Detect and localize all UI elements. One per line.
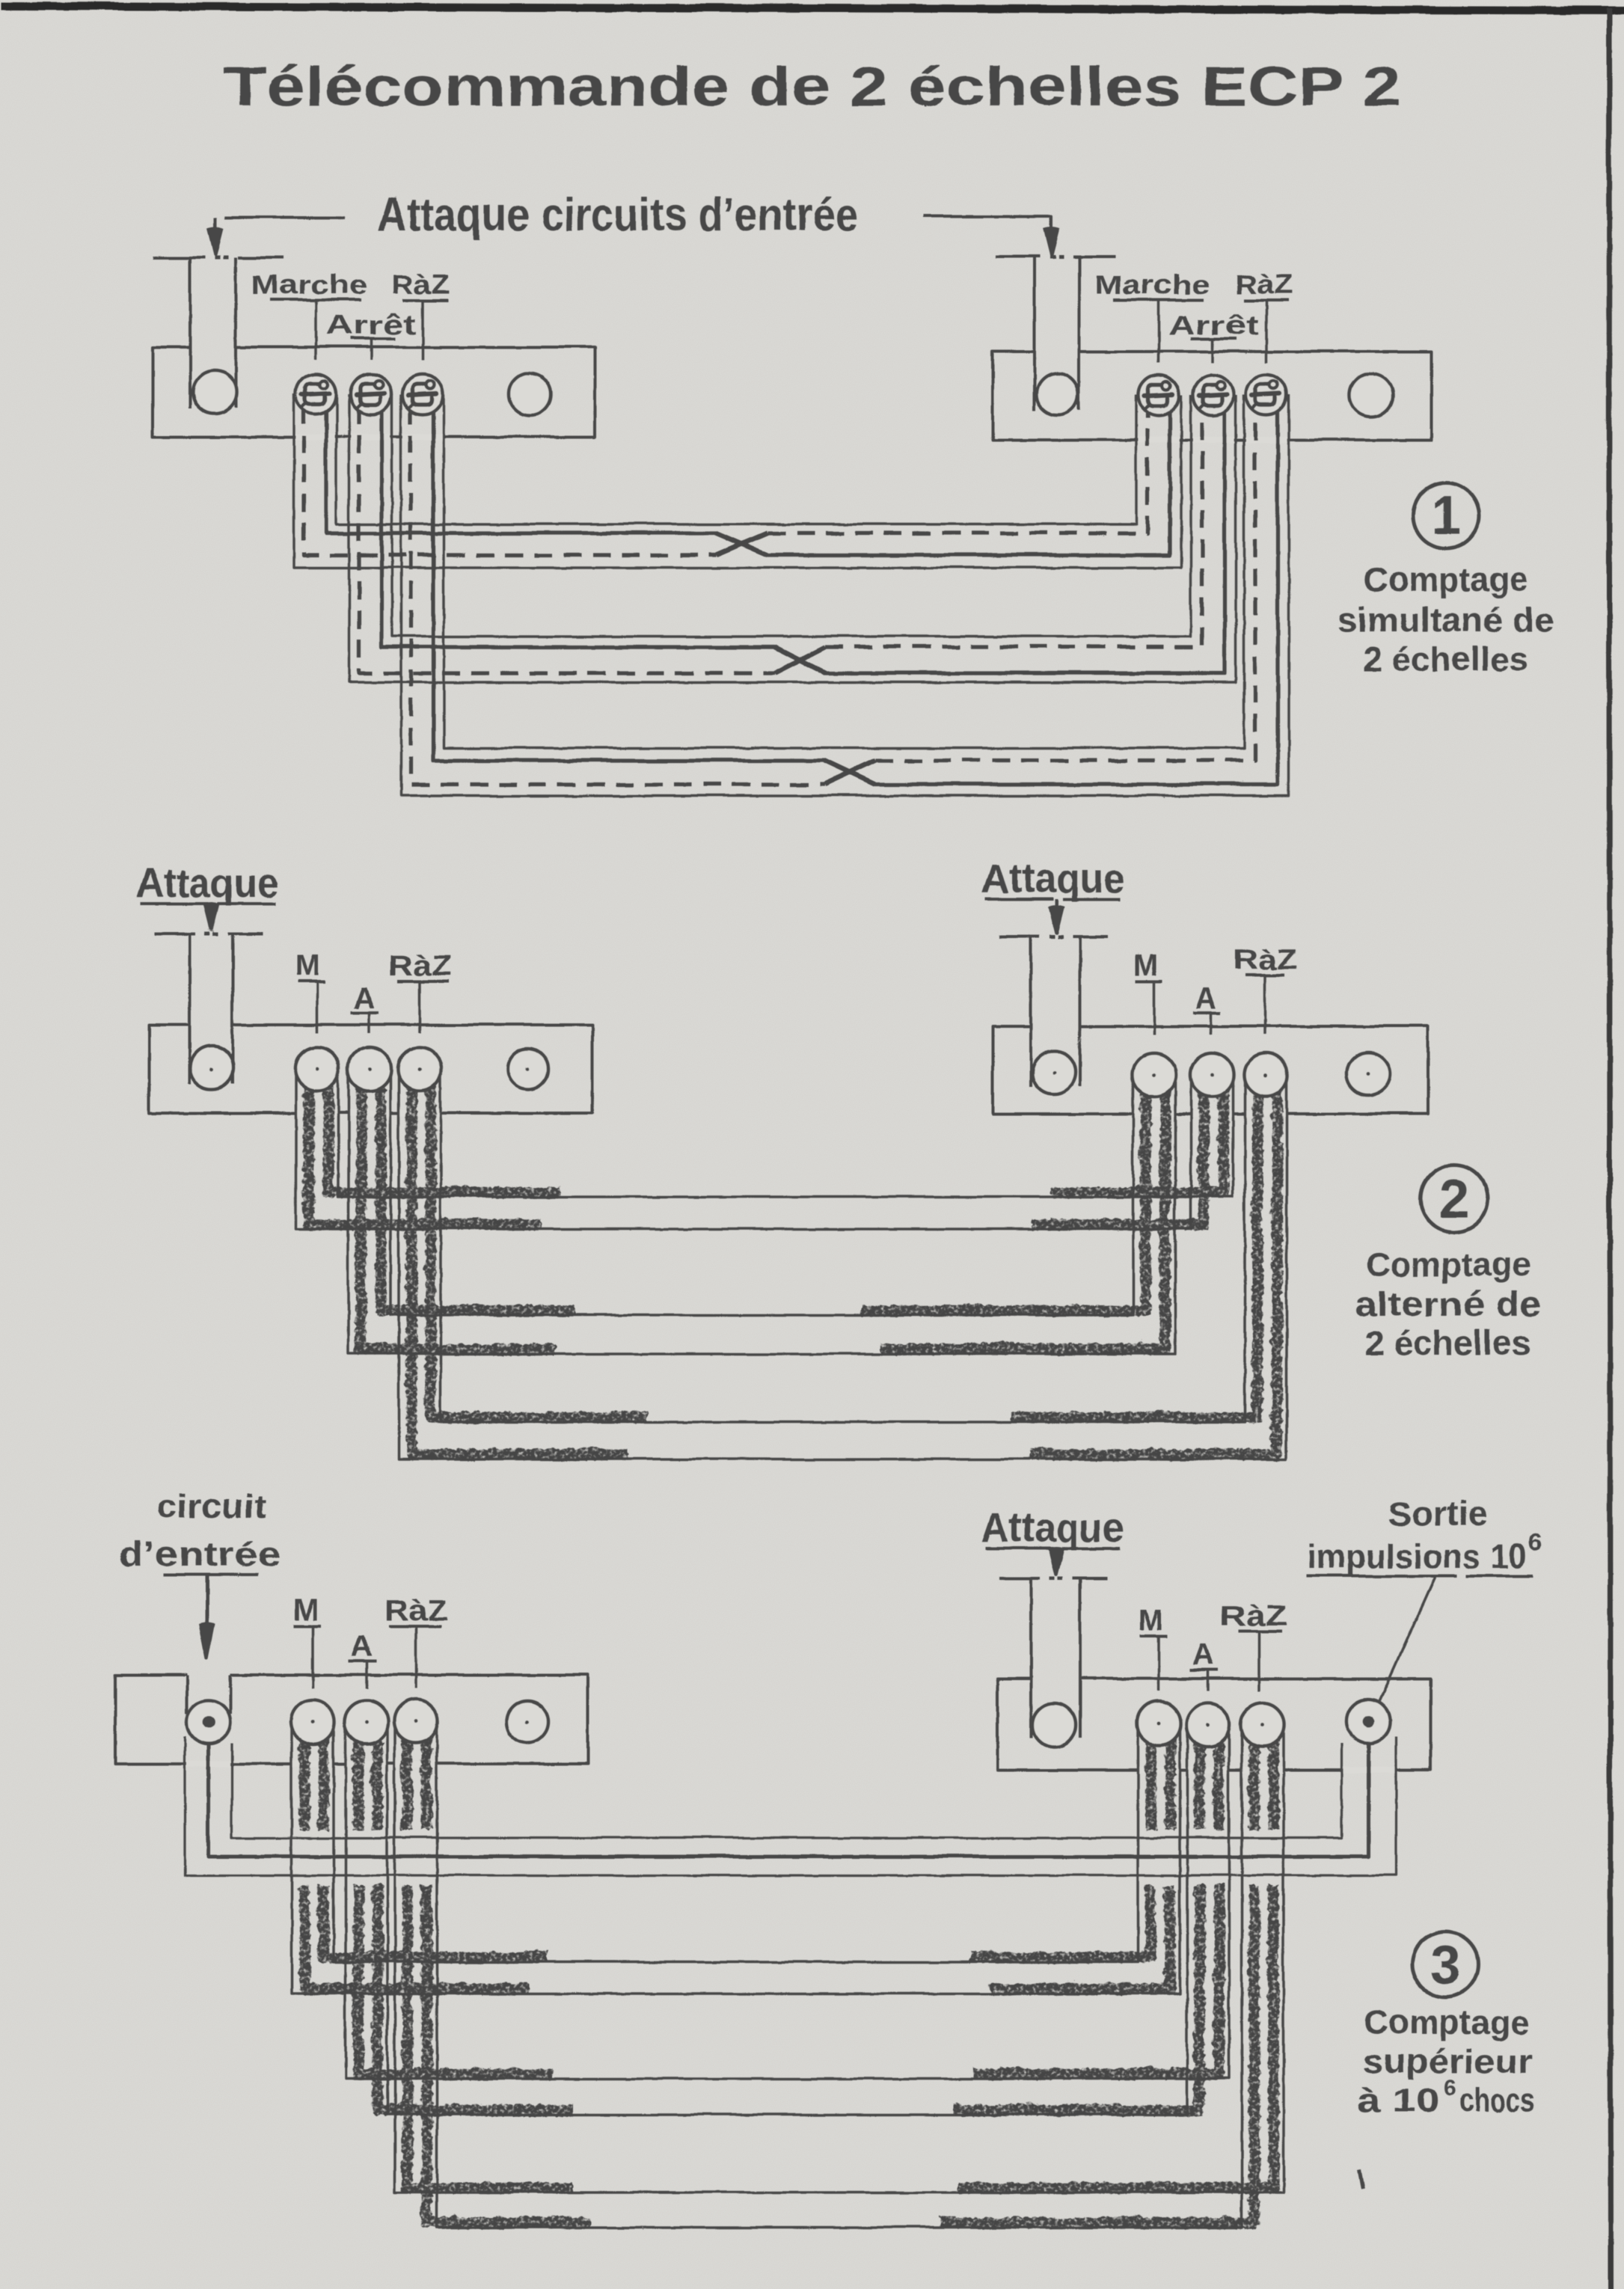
- svg-text:1: 1: [1430, 485, 1460, 545]
- svg-text:supérieur: supérieur: [1361, 2041, 1531, 2080]
- arrow to left entry D1: [213, 217, 216, 233]
- svg-text:Arrêt: Arrêt: [1168, 309, 1258, 340]
- spare socket right D1: [1349, 373, 1392, 416]
- caption circled 3: [1412, 1931, 1477, 1997]
- button RàZ left D3: [393, 1699, 437, 1742]
- spare socket left D2: [507, 1048, 548, 1088]
- svg-text:A: A: [353, 981, 376, 1014]
- svg-text:Marche: Marche: [251, 269, 367, 299]
- leader right: [922, 215, 1051, 224]
- input notch leg right D3: [228, 1674, 231, 1713]
- svg-text:6: 6: [1443, 2075, 1457, 2100]
- input notch leg left D3: [185, 1674, 188, 1713]
- svg-text:simultané de: simultané de: [1337, 600, 1553, 638]
- svg-text:Arrêt: Arrêt: [325, 309, 415, 340]
- button M right D2: [1132, 1052, 1175, 1096]
- leader diagonal to output socket: [1371, 1577, 1434, 1717]
- tube wall inner: [443, 393, 1243, 747]
- svg-text:3: 3: [1430, 1934, 1459, 1994]
- tube wall inner: [391, 393, 1190, 636]
- svg-text:alterné de: alterné de: [1354, 1284, 1541, 1323]
- button RàZ right D3: [1240, 1703, 1284, 1746]
- tube wall inner: [336, 393, 1136, 524]
- entry fork right scaler D1: [995, 254, 1040, 257]
- entry fork right scaler D2: [998, 934, 1039, 937]
- svg-text:A: A: [350, 1629, 373, 1662]
- link wire entrée->sortie: [208, 1724, 1367, 1856]
- wire solid: [432, 405, 1277, 784]
- svg-text:A: A: [1192, 1638, 1215, 1671]
- button Arrêt left D1: [350, 373, 390, 414]
- button RàZ left D2: [397, 1047, 441, 1090]
- wire pair thin guides: [394, 1720, 1283, 2192]
- wire dashed (right of crossover): [767, 406, 1147, 533]
- right scaler panel D2: [992, 1026, 1427, 1113]
- crayon strokes D2: [307, 1079, 1275, 1453]
- stray pen tick: [1358, 2169, 1362, 2188]
- wire solid: [381, 405, 1224, 672]
- wire dashed (right of crossover): [874, 406, 1254, 760]
- arrow to right entry D3: [1054, 1548, 1057, 1552]
- svg-text:Attaque circuits d’entrée: Attaque circuits d’entrée: [376, 189, 857, 240]
- svg-text:Attaque: Attaque: [981, 854, 1124, 901]
- wire pair thin guides: [345, 1721, 1228, 2078]
- button M left D3: [290, 1700, 334, 1743]
- wire dashed (left of crossover): [358, 405, 773, 672]
- right scaler panel D1: [992, 351, 1430, 439]
- input socket left D3: [186, 1700, 230, 1743]
- svg-text:Comptage: Comptage: [1364, 2003, 1528, 2041]
- svg-text:2: 2: [1438, 1168, 1468, 1228]
- svg-text:RàZ: RàZ: [387, 950, 451, 981]
- svg-text:RàZ: RàZ: [1234, 269, 1292, 299]
- tube wall outer: [400, 393, 1288, 795]
- entry socket right D2: [1032, 1050, 1075, 1094]
- button Marche right D1: [1138, 374, 1178, 414]
- wire pair thin guides: [333, 1721, 1137, 1961]
- button RàZ left D1: [402, 373, 442, 414]
- left scaler panel D3: [114, 1674, 587, 1763]
- entry fork right scaler D3: [998, 1576, 1039, 1579]
- entry socket right D1: [1036, 373, 1078, 414]
- svg-text:M: M: [1133, 949, 1159, 981]
- leader left: [224, 215, 344, 218]
- frame right vertical line: [1608, 7, 1610, 2289]
- svg-text:Comptage: Comptage: [1365, 1245, 1530, 1283]
- wire dashed (left of crossover): [410, 405, 824, 784]
- scan border: top black band: [0, 5, 1624, 10]
- button A right D2: [1189, 1052, 1233, 1096]
- arrow to right entry D1: [1050, 221, 1052, 232]
- svg-text:RàZ: RàZ: [384, 1595, 447, 1626]
- wire dashed (right of crossover): [824, 406, 1201, 646]
- arrow to right entry D2: [1054, 898, 1057, 910]
- entry socket left D1: [192, 370, 236, 414]
- button A left D3: [344, 1700, 387, 1743]
- svg-text:Télécommande de 2 échelles ECP: Télécommande de 2 échelles ECP 2: [223, 55, 1400, 117]
- svg-text:chocs: chocs: [1459, 2080, 1534, 2118]
- caption circled 1: [1412, 482, 1478, 548]
- link tube wall inner (entrée->sortie): [231, 1743, 1340, 1837]
- left scaler panel D1: [152, 346, 594, 436]
- right scaler panel D3: [996, 1678, 1430, 1769]
- spare socket left D3: [506, 1700, 548, 1742]
- svg-text:circuit: circuit: [156, 1486, 266, 1525]
- entry fork left scaler D2: [153, 931, 194, 934]
- svg-text:A: A: [1195, 981, 1219, 1014]
- svg-text:2 échelles: 2 échelles: [1362, 640, 1528, 678]
- entry fork left scaler D1: [153, 256, 204, 259]
- entry socket left D2: [189, 1045, 233, 1088]
- caption circled 2: [1420, 1164, 1487, 1231]
- button RàZ right D1: [1245, 374, 1286, 414]
- button M left D2: [295, 1047, 338, 1090]
- svg-text:RàZ: RàZ: [391, 269, 449, 299]
- svg-text:M: M: [1137, 1603, 1163, 1636]
- button Marche left D1: [295, 373, 335, 414]
- left scaler panel D2: [148, 1024, 592, 1112]
- long arrow to panel input D3: [205, 1574, 209, 1628]
- output socket right D3: [1346, 1699, 1389, 1742]
- crossover X: [773, 646, 824, 672]
- svg-text:6: 6: [1528, 1528, 1542, 1555]
- svg-text:M: M: [292, 1593, 319, 1626]
- button A right D3: [1186, 1703, 1229, 1746]
- svg-text:Comptage: Comptage: [1363, 560, 1528, 598]
- wire solid: [325, 405, 1169, 554]
- spare socket left D1: [508, 373, 550, 414]
- crayon strokes D3: [302, 1731, 1272, 2221]
- spare socket right D2: [1346, 1052, 1389, 1095]
- svg-text:d’entrée: d’entrée: [117, 1534, 280, 1572]
- button A left D2: [347, 1047, 390, 1090]
- arrow to left entry D2: [209, 903, 212, 907]
- svg-text:2 échelles: 2 échelles: [1364, 1323, 1530, 1361]
- wire pair thin guides: [337, 1068, 1232, 1196]
- svg-text:M: M: [294, 949, 320, 981]
- svg-text:impulsions 10: impulsions 10: [1306, 1536, 1526, 1575]
- svg-text:Attaque: Attaque: [135, 859, 278, 905]
- button RàZ right D2: [1243, 1052, 1287, 1096]
- link tube wall outer: [184, 1735, 1395, 1875]
- svg-text:RàZ: RàZ: [1219, 1600, 1287, 1631]
- wire dashed (left of crossover): [303, 405, 716, 554]
- wire pair thin guides: [440, 1068, 1244, 1421]
- svg-text:Marche: Marche: [1094, 269, 1210, 299]
- svg-text:Sortie: Sortie: [1387, 1494, 1487, 1532]
- entry socket right D3: [1032, 1703, 1075, 1746]
- svg-text:Attaque: Attaque: [981, 1504, 1124, 1550]
- crossover X: [824, 760, 874, 784]
- button Arrêt right D1: [1192, 374, 1233, 414]
- tube wall outer: [349, 393, 1235, 681]
- wire pair thin guides: [390, 1068, 1133, 1314]
- tube wall outer: [293, 393, 1180, 567]
- crossover X: [716, 533, 767, 554]
- button M right D3: [1136, 1701, 1180, 1744]
- svg-text:à 10: à 10: [1356, 2080, 1438, 2118]
- svg-text:RàZ: RàZ: [1233, 944, 1296, 975]
